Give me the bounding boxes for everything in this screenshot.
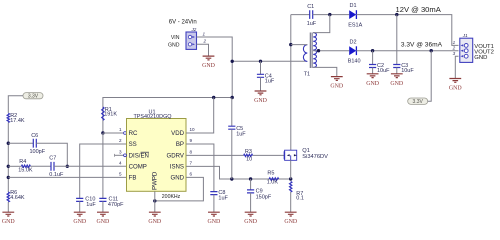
wire D1 to 12V rail bbox=[356, 15, 458, 46]
svg-text:100pF: 100pF bbox=[30, 149, 46, 155]
connector J2 pin 1 glyph bbox=[188, 35, 195, 38]
diode D2 B140 bbox=[349, 46, 356, 55]
svg-text:Si3476DV: Si3476DV bbox=[302, 154, 328, 160]
svg-text:D2: D2 bbox=[350, 39, 357, 45]
wire RC node to C11 bbox=[102, 133, 104, 198]
svg-text:C1: C1 bbox=[307, 4, 314, 10]
svg-text:17.4K: 17.4K bbox=[10, 118, 25, 124]
wire 3.3V rail bbox=[356, 50, 458, 52]
wire J2 pin2 to gnd bbox=[197, 44, 209, 56]
capacitor C10 bbox=[76, 198, 83, 201]
svg-text:FB: FB bbox=[129, 175, 137, 182]
resistor R3 bbox=[244, 154, 253, 156]
capacitor C5 bbox=[228, 126, 235, 129]
connector J2 body bbox=[186, 32, 197, 49]
svg-text:10: 10 bbox=[190, 127, 196, 132]
wire 3.3V flag riser bbox=[428, 51, 432, 101]
pin stub DIS/EN (floating) bbox=[115, 154, 124, 155]
ground under J2 bbox=[202, 56, 216, 69]
node 3.3V flag tap bbox=[430, 49, 433, 52]
node FB tap R4 bbox=[7, 165, 10, 168]
svg-text:C6: C6 bbox=[31, 133, 38, 139]
svg-text:ES1A: ES1A bbox=[348, 22, 362, 28]
svg-text:T1: T1 bbox=[304, 71, 310, 77]
svg-text:Q1: Q1 bbox=[302, 148, 310, 154]
svg-text:GND: GND bbox=[390, 81, 404, 87]
wire C1 to D1 bbox=[313, 14, 350, 16]
svg-text:GND: GND bbox=[449, 86, 463, 92]
svg-text:RC: RC bbox=[129, 130, 138, 137]
svg-text:GND: GND bbox=[170, 175, 184, 182]
svg-text:8: 8 bbox=[190, 150, 193, 155]
svg-text:GND: GND bbox=[330, 84, 344, 90]
svg-text:150pF: 150pF bbox=[256, 194, 272, 200]
svg-text:7: 7 bbox=[190, 161, 193, 166]
node C3 tap 12V bbox=[395, 13, 398, 16]
svg-text:GND: GND bbox=[202, 63, 216, 69]
connector J1 pin 2 glyph bbox=[461, 49, 469, 53]
svg-text:BP: BP bbox=[176, 141, 184, 148]
wire 3.3V flag to divider top bbox=[8, 96, 23, 113]
svg-text:GND: GND bbox=[2, 219, 16, 225]
wire C4 to gnd bbox=[260, 77, 262, 91]
wire SS pin to C10 bbox=[80, 144, 127, 198]
resistor R7 bbox=[290, 182, 292, 193]
wire secondary bottom bbox=[313, 67, 337, 76]
connector J2 pin 2 glyph bbox=[188, 43, 195, 46]
wire primary top stub bbox=[291, 44, 308, 46]
connector J1 pin 3 glyph bbox=[461, 54, 469, 58]
svg-text:3.3V: 3.3V bbox=[28, 94, 39, 100]
wire divider chain mid bbox=[7, 123, 9, 193]
resistor R1 bbox=[102, 107, 104, 120]
transformer T1 primary winding bbox=[303, 45, 307, 62]
ground under C11 bbox=[97, 212, 111, 225]
wire sense line bbox=[232, 178, 291, 180]
svg-text:GND: GND bbox=[366, 81, 380, 87]
svg-text:9: 9 bbox=[190, 138, 193, 143]
wire secondary top bbox=[313, 15, 330, 33]
resistor R6 bbox=[7, 192, 9, 202]
node C2 tap bbox=[371, 49, 374, 52]
wire C9 riser bbox=[250, 179, 252, 190]
capacitor C1 bbox=[310, 10, 313, 19]
svg-text:1uF: 1uF bbox=[86, 202, 96, 208]
capacitor C8 bbox=[210, 192, 217, 195]
wire R4 to C7 bbox=[30, 165, 51, 167]
node C5 sense join bbox=[230, 177, 233, 180]
wire top line left bbox=[291, 14, 310, 16]
capacitor C3 bbox=[393, 65, 400, 68]
node VIN link bbox=[231, 60, 234, 63]
svg-text:R4: R4 bbox=[19, 159, 26, 165]
svg-text:191K: 191K bbox=[104, 111, 117, 117]
svg-text:J2: J2 bbox=[191, 27, 197, 32]
svg-text:4.64K: 4.64K bbox=[10, 195, 25, 201]
resistor R2 bbox=[7, 113, 9, 122]
node RC bbox=[101, 131, 104, 134]
node sec top bbox=[328, 13, 331, 16]
svg-text:J1: J1 bbox=[462, 33, 468, 38]
diode D1 ES1A bbox=[349, 10, 356, 19]
svg-text:3: 3 bbox=[453, 51, 456, 56]
wire VDD rail bbox=[103, 61, 232, 133]
svg-text:GND: GND bbox=[284, 219, 298, 225]
svg-text:D1: D1 bbox=[350, 3, 357, 9]
pin 3 end tick bbox=[114, 154, 116, 157]
wire C3 to gnd bbox=[396, 68, 398, 74]
svg-text:GND: GND bbox=[168, 43, 180, 49]
svg-text:3: 3 bbox=[119, 150, 122, 155]
node VDD riser bbox=[212, 96, 215, 99]
svg-text:1.0K: 1.0K bbox=[267, 179, 279, 185]
ground under C9 bbox=[244, 212, 258, 225]
node C9 tap bbox=[249, 177, 252, 180]
wire BP pin to C8 bbox=[186, 144, 214, 192]
svg-text:GND: GND bbox=[208, 219, 222, 225]
node VIN-C5 bbox=[231, 96, 234, 99]
svg-text:GND: GND bbox=[474, 55, 487, 61]
svg-text:3.3V @ 36mA: 3.3V @ 36mA bbox=[401, 41, 443, 48]
ground under C3 bbox=[390, 74, 404, 87]
node source sense bbox=[289, 177, 292, 180]
node COMP join bbox=[66, 165, 69, 168]
wire R7 to gnd bbox=[290, 192, 292, 212]
wire C2 to gnd bbox=[372, 68, 374, 74]
connector J1 body bbox=[460, 38, 473, 62]
svg-text:GND: GND bbox=[254, 98, 268, 104]
node FB tap C6 bbox=[7, 142, 10, 145]
wire C5 to sense line bbox=[231, 129, 233, 179]
wire ISNS path bbox=[186, 166, 232, 179]
wire PWPD pin down bbox=[154, 191, 156, 212]
power flag 3.3V (left) bbox=[23, 93, 43, 100]
wire R3 to gate bbox=[253, 154, 285, 156]
connector J1 pin 1 glyph bbox=[461, 44, 469, 48]
wire secondary tap bbox=[313, 50, 349, 52]
svg-text:ISNS: ISNS bbox=[170, 164, 184, 171]
transistor Q1 Si3476DV bbox=[284, 150, 297, 160]
pin bubble RC bbox=[124, 132, 127, 135]
svg-text:DIS/EN: DIS/EN bbox=[129, 153, 149, 160]
wire C7 to COMP pin bbox=[54, 165, 127, 167]
capacitor C7 bbox=[51, 162, 54, 171]
svg-text:200KHz: 200KHz bbox=[162, 194, 181, 200]
wire R6 to gnd bbox=[7, 202, 9, 212]
ground under PWPD bbox=[148, 212, 162, 225]
svg-text:1uF: 1uF bbox=[236, 131, 246, 137]
wire C11 to gnd bbox=[102, 201, 104, 212]
svg-text:12V @ 30mA: 12V @ 30mA bbox=[396, 5, 442, 14]
wire C8 to gnd bbox=[213, 195, 215, 212]
svg-text:B140: B140 bbox=[348, 58, 361, 64]
node secondary tap bbox=[317, 49, 320, 52]
svg-text:1: 1 bbox=[203, 31, 206, 36]
wire J2 pin1 to VIN node bbox=[197, 37, 233, 61]
svg-text:GND: GND bbox=[244, 219, 258, 225]
svg-text:2: 2 bbox=[452, 45, 456, 50]
svg-text:2: 2 bbox=[119, 138, 122, 143]
svg-text:10uF: 10uF bbox=[377, 68, 390, 74]
capacitor C4 bbox=[257, 74, 264, 77]
ground under C4 bbox=[254, 91, 268, 104]
ground under T1 bbox=[330, 77, 344, 90]
wire C4 riser bbox=[260, 61, 262, 74]
svg-text:3.3V: 3.3V bbox=[413, 99, 424, 105]
wire FB to R4 bbox=[8, 165, 21, 167]
wire VDD pin to rail bbox=[186, 98, 214, 134]
resistor R4 bbox=[21, 165, 30, 167]
svg-text:R5: R5 bbox=[267, 170, 274, 176]
wire FB node to FB pin bbox=[8, 176, 126, 178]
svg-text:VIN: VIN bbox=[171, 35, 180, 41]
pin bubble DIS/EN bbox=[124, 154, 127, 157]
ground under C2 bbox=[366, 74, 380, 87]
svg-text:GND: GND bbox=[73, 219, 87, 225]
svg-text:1uF: 1uF bbox=[265, 78, 275, 84]
wire J1 pin3 to gnd bbox=[455, 56, 458, 78]
wire C3 riser bbox=[396, 15, 398, 65]
transformer T1 core bbox=[310, 33, 312, 69]
wire C10 to gnd bbox=[79, 201, 81, 212]
wire C9 to gnd bbox=[250, 193, 252, 212]
ground under R7 bbox=[284, 212, 298, 225]
svg-text:15.0K: 15.0K bbox=[18, 168, 33, 174]
wire RC stub bbox=[103, 132, 124, 134]
overline EN bbox=[141, 151, 149, 153]
svg-text:5: 5 bbox=[119, 172, 122, 177]
wire drain vertical bbox=[290, 15, 292, 151]
wire GDRV to R3 bbox=[186, 154, 244, 156]
wire C2 riser bbox=[372, 51, 374, 65]
svg-text:470pF: 470pF bbox=[108, 202, 124, 208]
capacitor C2 bbox=[369, 65, 376, 68]
capacitor C6 bbox=[33, 139, 36, 148]
capacitor C11 bbox=[99, 198, 106, 201]
svg-text:C7: C7 bbox=[49, 156, 56, 162]
transformer T1 secondary winding bbox=[313, 33, 316, 68]
svg-text:0.1: 0.1 bbox=[296, 196, 304, 202]
svg-text:PWPD: PWPD bbox=[152, 171, 159, 190]
wire FB to C6 bbox=[8, 142, 33, 144]
svg-text:COMP: COMP bbox=[129, 164, 147, 171]
svg-text:10: 10 bbox=[246, 156, 252, 162]
svg-text:TPS40210DGQ: TPS40210DGQ bbox=[133, 114, 171, 120]
ground under R6 bbox=[2, 212, 16, 225]
capacitor C9 bbox=[247, 190, 254, 193]
wire GND pin return bbox=[155, 177, 204, 201]
svg-text:6V - 24Vin: 6V - 24Vin bbox=[169, 19, 197, 25]
node primary top bbox=[289, 43, 292, 46]
node C4 tap bbox=[259, 60, 262, 63]
wire VIN link rail bbox=[232, 60, 307, 62]
svg-text:GND: GND bbox=[97, 219, 111, 225]
ground under C10 bbox=[73, 212, 87, 225]
node PWPD gnd bbox=[153, 199, 156, 202]
svg-text:2: 2 bbox=[203, 39, 207, 44]
svg-text:10uF: 10uF bbox=[401, 68, 414, 74]
svg-text:1uF: 1uF bbox=[218, 195, 228, 201]
svg-text:6: 6 bbox=[190, 172, 193, 177]
op-amp U1 TPS40210DGQ body bbox=[127, 119, 187, 192]
svg-text:1: 1 bbox=[453, 40, 456, 45]
svg-text:1: 1 bbox=[119, 127, 122, 132]
ground under J1 bbox=[449, 79, 463, 92]
svg-text:SS: SS bbox=[129, 141, 137, 148]
node FB tap FB-wire bbox=[7, 176, 10, 179]
svg-text:4: 4 bbox=[119, 161, 122, 166]
wire Q1 source bbox=[290, 160, 292, 179]
ground under C8 bbox=[208, 212, 222, 225]
svg-text:1uF: 1uF bbox=[307, 21, 317, 27]
power flag 3.3V (right) bbox=[408, 98, 428, 105]
wire C5 branch bbox=[231, 98, 233, 127]
svg-text:R3: R3 bbox=[245, 149, 252, 155]
resistor R5 bbox=[269, 178, 279, 180]
svg-text:GDRV: GDRV bbox=[167, 153, 185, 160]
svg-text:GND: GND bbox=[148, 219, 162, 225]
svg-text:VDD: VDD bbox=[171, 130, 184, 137]
wire C6 to COMP drop bbox=[36, 143, 67, 166]
